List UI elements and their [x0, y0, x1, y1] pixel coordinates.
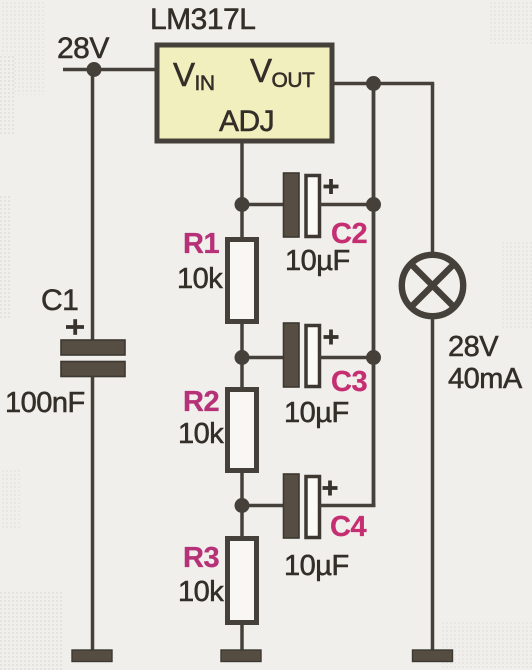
wire junction to C2 [242, 203, 285, 207]
svg-text:100nF: 100nF [5, 387, 85, 419]
junction R1 / R2 / C3 [235, 350, 250, 365]
wire junction to C4 [242, 504, 285, 508]
capacitor C3 [284, 323, 339, 387]
resistor R3 [228, 539, 257, 623]
svg-text:28V: 28V [57, 32, 109, 65]
wire C4 to bus [320, 504, 376, 508]
svg-text:10µF: 10µF [285, 245, 350, 277]
svg-text:10k: 10k [178, 418, 224, 450]
wire R1 to junction [240, 322, 244, 359]
wire input to C1 [91, 70, 95, 342]
ground under C1 [72, 650, 112, 662]
svg-text:LM317L: LM317L [150, 3, 255, 36]
wire junction to R3 [240, 506, 244, 540]
junction input node [87, 62, 102, 77]
wire C2 to bus [320, 203, 374, 207]
svg-text:40mA: 40mA [448, 363, 523, 395]
capacitor C2 [284, 173, 339, 237]
junction ADJ / C2 / R1 [235, 197, 250, 212]
regulator U1 LM317L body [157, 45, 332, 141]
ground under lamp [413, 650, 453, 662]
junction C3 bus [366, 350, 381, 365]
wire junction to R1 [240, 205, 244, 241]
svg-text:10µF: 10µF [284, 550, 349, 582]
svg-text:R3: R3 [183, 542, 219, 574]
wire input horizontal [63, 68, 157, 72]
wire ADJ down [240, 144, 244, 207]
wire junction to C3 [242, 356, 285, 360]
svg-text:R2: R2 [183, 386, 219, 418]
svg-text:ADJ: ADJ [219, 105, 274, 138]
wire C1 to ground [91, 377, 95, 652]
wire lamp to ground [431, 315, 435, 651]
svg-text:C1: C1 [41, 284, 78, 317]
svg-text:10k: 10k [177, 263, 223, 295]
junction R2 / R3 / C4 [235, 498, 250, 513]
wire R2 to junction [240, 471, 244, 507]
resistor R1 [228, 240, 257, 322]
svg-text:28V: 28V [448, 331, 499, 363]
wire VOUT horizontal [335, 82, 435, 86]
resistor R2 [228, 390, 257, 471]
svg-text:10k: 10k [178, 576, 224, 608]
lamp LP1 [402, 255, 463, 316]
capacitor C1 [61, 319, 125, 376]
svg-text:C4: C4 [330, 511, 366, 543]
svg-text:C3: C3 [331, 366, 367, 398]
wire R3 to ground [240, 623, 244, 652]
wire output bus vertical [372, 84, 376, 508]
svg-text:R1: R1 [183, 228, 219, 260]
capacitor C4 [284, 474, 338, 538]
junction C2 bus [366, 197, 381, 212]
wire C3 to bus [320, 356, 374, 360]
wire to lamp [431, 84, 435, 257]
wire junction to R2 [240, 358, 244, 391]
ground under R3 [221, 650, 261, 662]
junction VOUT node [366, 76, 381, 91]
svg-text:10µF: 10µF [284, 397, 349, 429]
